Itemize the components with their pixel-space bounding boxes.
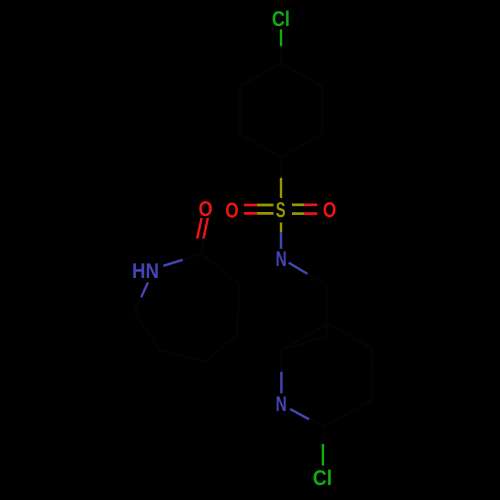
svg-text:O: O	[199, 197, 213, 221]
svg-text:Cl: Cl	[272, 7, 290, 31]
svg-text:Cl: Cl	[313, 466, 332, 490]
svg-text:HN: HN	[132, 259, 159, 283]
svg-text:O: O	[225, 198, 238, 222]
svg-text:N: N	[276, 247, 287, 271]
svg-text:S: S	[276, 198, 286, 222]
svg-text:O: O	[323, 198, 336, 222]
svg-text:N: N	[276, 392, 287, 416]
